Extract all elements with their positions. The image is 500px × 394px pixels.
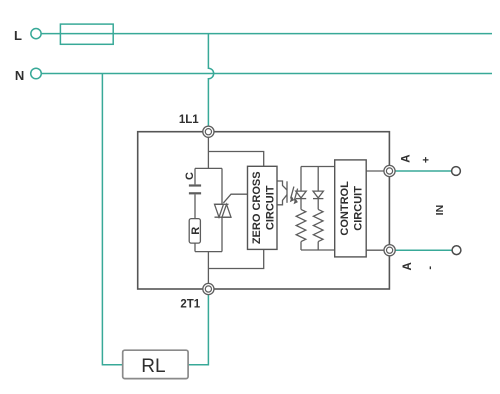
svg-text:L: L (14, 28, 22, 43)
svg-text:A: A (402, 262, 414, 270)
svg-text:IN: IN (434, 205, 446, 216)
triac Q1 left triangle (215, 204, 224, 217)
wire 1L1 down to split node (207, 137, 209, 168)
svg-text:1L1: 1L1 (179, 114, 199, 126)
wire A+ output (395, 170, 451, 172)
wire L line (41, 33, 492, 35)
LED D1 triangle (296, 191, 306, 198)
terminal circle N (31, 68, 42, 79)
opto light arrow 1 (291, 187, 294, 199)
svg-text:ZERO CROSS: ZERO CROSS (251, 171, 263, 244)
svg-text:A: A (401, 154, 413, 162)
terminal ring A plus (384, 165, 395, 176)
wire input top bus (301, 166, 335, 168)
LED D1 bar (296, 198, 306, 200)
wire cap to resistor (194, 194, 196, 218)
fuse F1 (60, 24, 113, 44)
svg-text:N: N (15, 68, 24, 83)
wire zero cross bottom to 2T1 (208, 249, 263, 268)
terminal ring 2T1 (203, 283, 214, 294)
terminal circle A- open end (452, 246, 461, 255)
resistor R3 zigzag (313, 209, 323, 241)
control circuit box (335, 160, 367, 257)
wire node to zero cross top (208, 152, 263, 167)
wire LED2 to R3 (317, 199, 319, 210)
wire input bottom bus (301, 249, 335, 251)
wire cap branch top (194, 168, 196, 184)
terminal ring A minus (384, 245, 395, 256)
AC line terminal L (31, 24, 492, 365)
wire LED1 to R2 (300, 199, 302, 210)
wire resistor to bottom rail (194, 243, 196, 252)
triac Q1 right triangle (222, 204, 231, 217)
svg-text:CONTROL: CONTROL (339, 181, 351, 236)
wire R2 bottom (300, 242, 302, 250)
wire snubber top rail (195, 167, 222, 169)
svg-text:-: - (424, 266, 436, 270)
wire snubber bottom rail (195, 251, 222, 253)
svg-text:CIRCUIT: CIRCUIT (264, 185, 276, 230)
svg-text:2T1: 2T1 (180, 299, 200, 311)
wire R3 bottom (317, 242, 319, 250)
resistor R2 zigzag (296, 209, 306, 241)
resistor R body (189, 219, 200, 244)
triac Q1 top bar (215, 203, 229, 205)
wire L to 1L1 with hop over N (208, 34, 213, 127)
SSR outline box (138, 132, 390, 289)
wire N line (41, 73, 492, 75)
svg-text:+: + (421, 157, 433, 163)
triac Q1 bottom bar (215, 216, 232, 218)
wire opto top lead (276, 181, 287, 190)
zero cross circuit box (248, 166, 278, 249)
terminal circle L (31, 28, 41, 38)
capacitor C plate 1 (189, 184, 201, 186)
wire control to A+ (366, 170, 384, 172)
LED D2 bar (313, 198, 323, 200)
terminal ring 1L1 (203, 126, 214, 137)
wire RL to 2T1 (188, 295, 208, 365)
wire LED2 top (317, 167, 319, 192)
svg-text:CIRCUIT: CIRCUIT (353, 186, 365, 231)
LED D2 triangle (313, 191, 323, 198)
opto phototriac bar (286, 181, 288, 203)
wire triac bottom (221, 217, 223, 251)
wire A- output (395, 249, 451, 251)
wire opto bottom lead (276, 195, 287, 205)
wire LED1 top (300, 167, 302, 192)
svg-text:R: R (190, 227, 202, 235)
svg-text:C: C (184, 172, 196, 180)
wire N down left side (102, 74, 122, 365)
wire triac top (221, 168, 223, 204)
terminal circle A+ open end (452, 167, 461, 176)
wire triac gate to zero cross (223, 194, 247, 203)
load RL box (123, 350, 188, 378)
wire control to A- (366, 249, 384, 251)
capacitor C plate 2 (189, 192, 201, 194)
opto light arrow 2 (294, 189, 297, 201)
wire bottom rail to 2T1 (207, 252, 209, 284)
svg-text:RL: RL (141, 356, 165, 377)
